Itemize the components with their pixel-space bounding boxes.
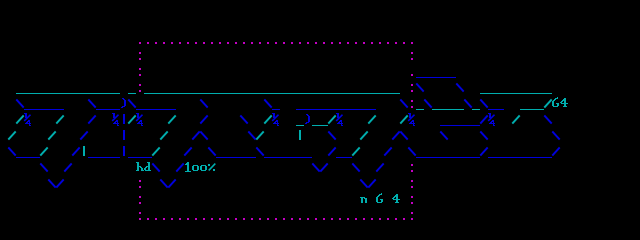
magenta dotted frame - bottom edge	[139, 212, 413, 220]
logo top row with 64 text	[16, 97, 568, 110]
logo quarter-fraction row	[16, 113, 551, 126]
hd 1oo% text row	[40, 162, 413, 172]
logo feet row	[48, 179, 413, 188]
frame sides + blue ledge	[139, 68, 456, 78]
logo overline row	[16, 83, 552, 94]
frame side colons	[139, 52, 413, 60]
logo diagonal row	[8, 130, 559, 140]
logo baseline row	[8, 146, 559, 158]
magenta dotted frame - top edge	[139, 42, 413, 44]
n 6 4 text row	[139, 193, 413, 204]
